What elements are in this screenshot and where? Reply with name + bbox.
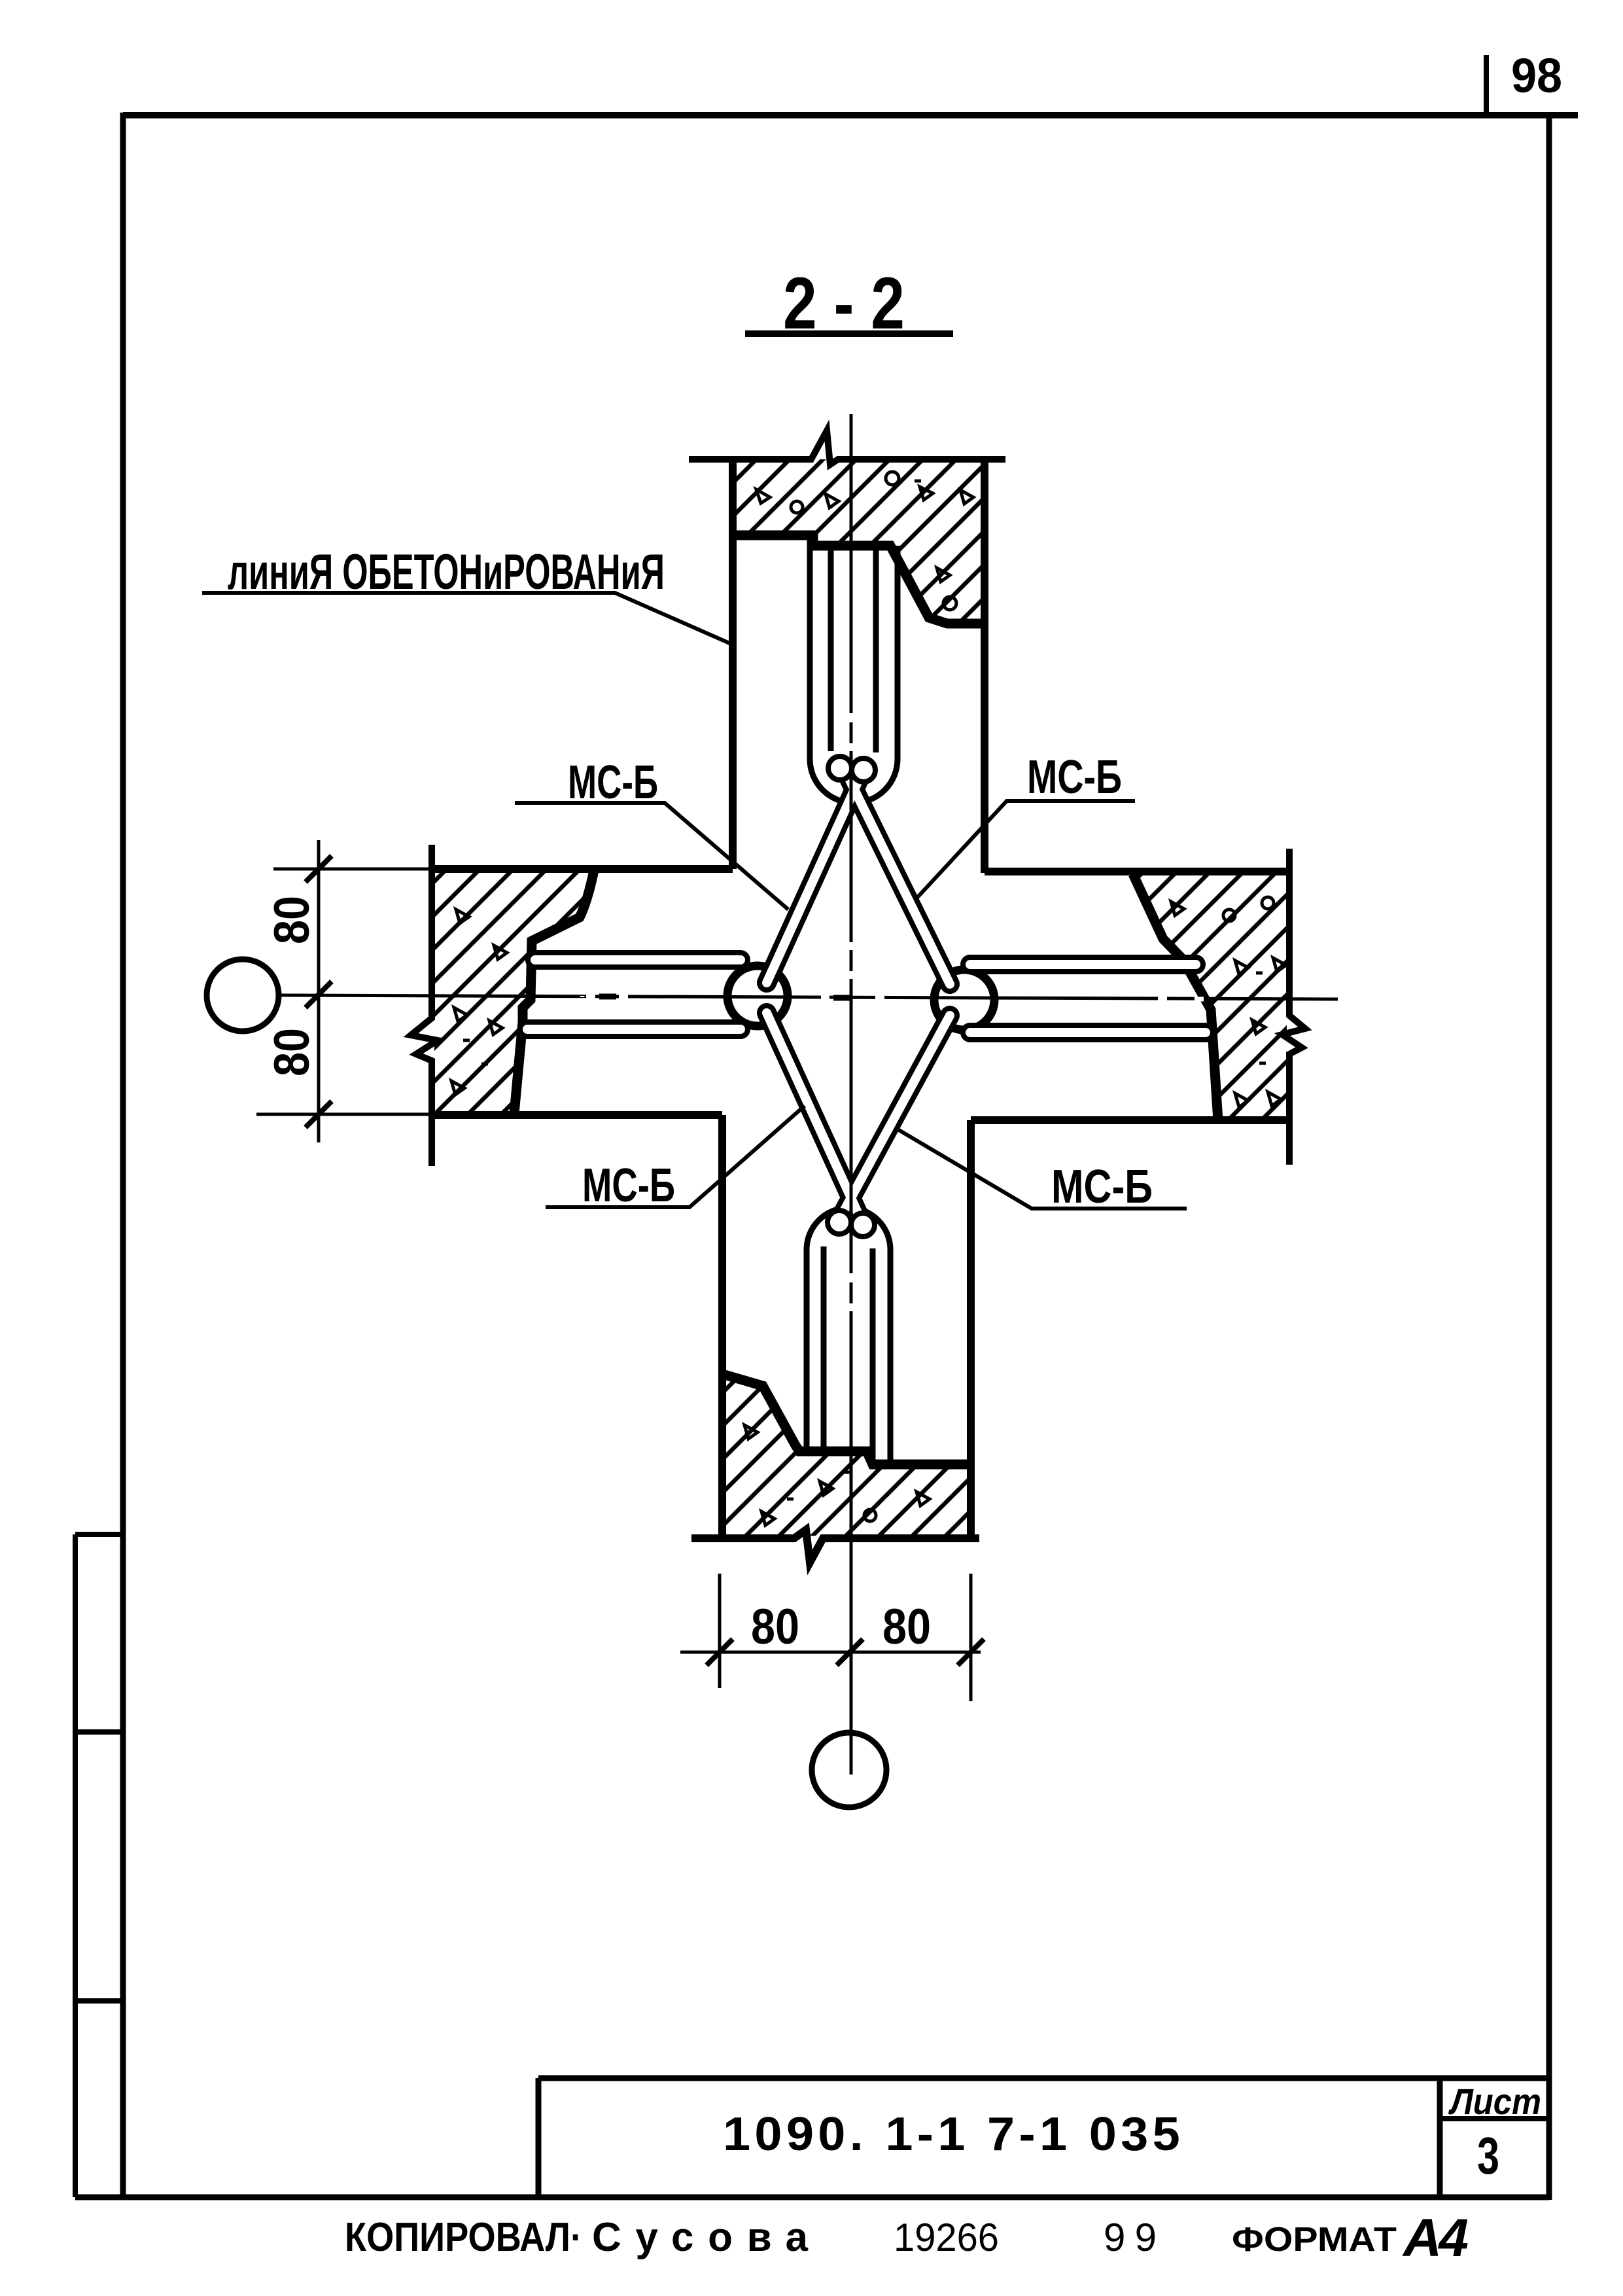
svg-text:МС-Б: МС-Б: [582, 1159, 675, 1212]
svg-text:КОПИРОВАЛ·: КОПИРОВАЛ·: [345, 2215, 582, 2260]
horizontal centre axis: [279, 995, 1338, 999]
right anchor ring MS-B loop: [934, 970, 994, 1030]
bottom junction rod hooks: [828, 1210, 851, 1234]
vertical centre axis: [850, 414, 853, 1775]
left arm: concreting line: [514, 870, 594, 1114]
concrete aggregate symbols in hatched panels: [451, 472, 1286, 1525]
title block: [538, 2078, 1549, 2197]
svg-text:МС-Б: МС-Б: [1027, 751, 1122, 804]
top junction rod hooks: [828, 756, 852, 780]
left arm: top wall: [432, 865, 733, 873]
hatch fill: top arm panel: [735, 459, 982, 622]
right arm: bottom wall: [971, 1116, 1289, 1124]
svg-text:ФОРМАТ: ФОРМАТ: [1232, 2221, 1397, 2259]
axis bubble bottom: [812, 1733, 886, 1807]
page number 98: [1484, 55, 1489, 115]
svg-text:98: 98: [1511, 48, 1562, 103]
left arm: end break line with zigzag: [411, 845, 438, 1166]
svg-text:80: 80: [264, 1028, 320, 1076]
brace rods (black outer): [527, 768, 1206, 1221]
top arm slot: outer channel: [810, 539, 898, 803]
right arm: end break line with zigzag: [1282, 849, 1305, 1165]
top arm: right wall: [981, 458, 988, 873]
top arm: concreting line (linija obetonirovanija): [733, 535, 985, 624]
svg-text:80: 80: [264, 896, 320, 944]
hatch fill: right arm panel: [1136, 875, 1287, 1118]
left dimension 80/80: [256, 840, 432, 1142]
svg-text:1090. 1-1 7-1 035: 1090. 1-1 7-1 035: [723, 2108, 1184, 2161]
left arm: bottom wall: [432, 1111, 722, 1119]
bottom arm: concreting line: [722, 1374, 969, 1464]
svg-text:80: 80: [882, 1599, 931, 1655]
svg-text:3: 3: [1477, 2127, 1499, 2185]
bottom arm: right wall: [967, 1120, 975, 1541]
svg-text:А4: А4: [1402, 2208, 1469, 2268]
top arm: left wall: [729, 458, 737, 869]
top arm slot: inner channel: [831, 546, 876, 752]
left anchor ring MS-B loop: [727, 966, 788, 1026]
revision strip: [75, 1534, 123, 2197]
right arm: top wall: [985, 868, 1289, 875]
brace rods (white core): [527, 768, 1206, 1221]
hatch fill: left arm panel: [434, 872, 592, 1114]
svg-text:Лист: Лист: [1448, 2081, 1541, 2122]
bottom arm: bottom break edge with zigzag: [691, 1530, 979, 1563]
svg-text:19266: 19266: [894, 2216, 999, 2259]
top arm: top break edge: [689, 431, 1005, 465]
bottom arm: left wall: [718, 1115, 726, 1541]
bottom arm slot: outer channel: [807, 1208, 890, 1464]
right arm: concreting line: [1133, 874, 1218, 1121]
axis bubble left: [207, 959, 279, 1031]
svg-text:80: 80: [751, 1599, 799, 1655]
bottom arm slot: inner channel: [824, 1246, 873, 1458]
bottom dimension 80 80: [680, 1574, 984, 1701]
hatch fill: bottom arm panel: [725, 1377, 969, 1536]
svg-text:МС-Б: МС-Б: [1051, 1161, 1153, 1213]
